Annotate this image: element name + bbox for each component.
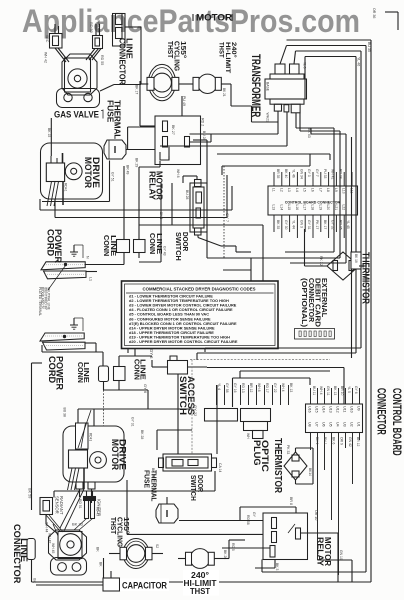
svg-text:WH 4: WH 4 [319,386,323,395]
svg-text:d20 - UPPER DRYER MOTOR CONTRO: d20 - UPPER DRYER MOTOR CONTROL CIRCUIT … [129,339,238,344]
thermal fuse TF2 [156,504,178,523]
wire [153,553,164,555]
svg-text:WH21: WH21 [266,113,270,123]
wire [160,145,287,147]
wire [262,225,264,281]
wire [39,199,41,210]
svg-text:PK 32: PK 32 [319,256,323,266]
hi-limit thermostat THS4 [190,549,210,569]
GY 7 dashed wire [223,166,225,258]
svg-text:RADIANTSENSOR: RADIANTSENSOR [55,496,64,515]
wire [250,258,252,281]
wire [385,11,398,13]
svg-text:BK 13: BK 13 [289,383,293,392]
wire [197,352,356,354]
svg-text:L3: L3 [287,188,291,192]
svg-text:OR 36: OR 36 [372,8,376,18]
power cord P1 [41,262,85,270]
wire [285,251,334,253]
svg-text:RD 55: RD 55 [100,55,104,65]
svg-text:BU 35: BU 35 [367,42,371,52]
wire labels above lower connectors [217,383,293,393]
svg-text:L13: L13 [272,205,276,211]
svg-text:U6: U6 [322,422,326,427]
svg-text:BR 35: BR 35 [276,169,280,179]
wire [216,385,218,454]
wire [85,264,125,266]
wire [223,257,225,259]
svg-text:MOTOR: MOTOR [196,13,233,23]
wire [205,347,361,349]
wire [318,559,353,561]
svg-text:YL 46: YL 46 [292,169,296,178]
gas valve GV2 base [51,558,87,576]
wire [179,520,263,522]
line conn J3 [134,240,146,253]
svg-text:L10: L10 [342,188,346,194]
wire [138,253,140,259]
svg-text:COMMERCIAL STACKED DRYER DIAGN: COMMERCIAL STACKED DRYER DIAGNOSTIC CODE… [142,287,255,292]
svg-text:L18: L18 [311,205,315,211]
svg-text:BK 27: BK 27 [171,125,175,135]
wire [287,39,372,41]
wire [42,351,103,353]
wire [31,560,33,583]
svg-text:GY 31: GY 31 [307,220,311,230]
right bus verticals [333,128,335,252]
svg-text:GAS VALVE: GAS VALVE [54,110,99,121]
wire [231,185,233,188]
svg-text:L1: L1 [272,188,276,192]
wire [123,166,125,240]
CN2 outgoing wires bottom [311,433,360,576]
thermal fuse TF1 [104,140,126,159]
svg-text:BK 29: BK 29 [135,158,139,167]
wire [45,515,47,525]
diagnostic codes text [129,294,238,345]
svg-text:BR 8: BR 8 [289,497,293,505]
motor relay K1 [155,116,201,165]
wire [86,271,97,273]
CN1 pin labels top row [272,188,354,194]
svg-text:THERMISTOR: THERMISTOR [272,438,284,493]
gas valve GV1 body [62,54,97,95]
svg-text:BK 28: BK 28 [140,430,144,439]
wire [103,390,105,426]
wire [179,83,193,85]
door switch S1 [190,183,207,232]
svg-text:BK 21: BK 21 [222,88,226,97]
wire diagonal [46,515,60,531]
wire [190,133,279,135]
svg-text:U16: U16 [308,406,312,413]
external debit card connector CN3 [295,329,335,340]
wire [147,390,149,409]
wire [54,199,56,218]
svg-text:L7: L7 [318,188,322,192]
wire [296,50,362,52]
optic plug CN4 [241,409,271,422]
CN1 wire labels above [276,169,342,179]
wire [295,507,297,513]
svg-text:GY 31: GY 31 [131,417,135,427]
gray dashed wire [191,360,193,455]
line conn J4 [99,366,109,382]
wire [128,126,155,128]
svg-text:SEC: SEC [45,35,49,43]
svg-text:BK 40: BK 40 [284,169,288,178]
wire [217,153,330,155]
control board connector CN1 [268,186,358,215]
svg-text:U15: U15 [315,406,319,413]
svg-text:GN 3: GN 3 [299,220,303,228]
wire [290,262,346,264]
svg-text:BK: BK [99,562,103,567]
CN2 wire labels above [312,386,358,396]
svg-text:L2: L2 [279,188,283,192]
gas valve GV1 coil terminal A [50,34,63,49]
wire [188,366,208,368]
svg-text:GY 6: GY 6 [354,386,358,394]
svg-text:RD 58: RD 58 [246,515,250,525]
svg-text:U10: U10 [350,406,354,413]
control board connector CN2 [306,404,363,433]
svg-text:PK 17: PK 17 [315,220,319,229]
svg-text:MOTORRELAY: MOTORRELAY [315,537,333,566]
svg-text:DRIVEMOTOR: DRIVEMOTOR [109,439,128,470]
svg-text:WH 4: WH 4 [281,383,285,392]
wire [287,45,367,47]
svg-text:LINECONN: LINECONN [76,362,91,383]
ground symbol [73,245,75,252]
gas valve GV2 body [49,530,87,560]
svg-text:BK 3: BK 3 [275,563,279,570]
CN2 pin labels top row [308,406,361,413]
svg-text:WH 8: WH 8 [257,383,261,392]
svg-text:BK 17: BK 17 [323,220,327,229]
drive motor M2 pins [76,482,83,489]
svg-text:S2: S2 [155,544,159,548]
svg-text:GN 34: GN 34 [299,169,303,179]
wire [126,480,128,534]
svg-text:U4: U4 [336,422,340,427]
svg-text:WH 44: WH 44 [45,522,49,532]
CN1 incoming wires top [274,172,352,186]
wire [214,471,216,491]
capacitor C1 [103,578,120,591]
svg-text:GY 7: GY 7 [315,169,319,177]
hi-limit thermostat THS4 label [183,570,219,596]
svg-text:WH: WH [246,433,250,439]
svg-text:GY: GY [252,512,256,518]
svg-text:L14: L14 [279,205,283,211]
motor relay K2 [263,513,308,560]
CN1 wire labels below [276,220,350,230]
wire diagonal [78,410,91,448]
wire [159,161,161,167]
svg-text:THST: THST [190,587,210,596]
wire [280,46,287,65]
wire [41,345,43,352]
svg-text:RD 17: RD 17 [265,383,269,393]
gas valve GV1 base [57,89,100,108]
drive motor M1 leads [47,182,52,207]
wire [152,366,168,368]
svg-text:YL 44: YL 44 [292,220,296,229]
svg-text:U1: U1 [357,422,361,427]
wire [140,125,155,127]
svg-text:BK 18: BK 18 [354,254,358,263]
svg-text:BU 28: BU 28 [202,131,206,141]
svg-text:U3: U3 [343,422,347,427]
wire [365,266,367,572]
wire [166,497,168,504]
wire [305,56,356,58]
gray dashed wire [190,359,330,361]
wire [301,532,339,534]
svg-text:WH 42: WH 42 [44,52,48,63]
svg-text:L22: L22 [342,205,346,211]
svg-text:BASE: BASE [266,82,270,92]
svg-text:GY 51: GY 51 [111,172,115,182]
svg-text:BK 1: BK 1 [315,437,319,444]
wire [54,490,215,492]
wire [109,161,111,202]
svg-text:CONNECTOR: CONNECTOR [12,524,22,584]
wire [93,409,95,426]
svg-text:BK 59: BK 59 [28,488,32,498]
svg-text:BR 12: BR 12 [356,437,360,447]
svg-text:BK 19: BK 19 [151,468,155,477]
svg-text:L8: L8 [326,188,330,192]
svg-text:YL 4: YL 4 [217,383,221,390]
door switch S3 [163,454,212,471]
wire [86,491,88,497]
ground symbol [73,318,75,325]
CN2 wire labels below [315,437,360,447]
access switch S2 [168,361,188,375]
svg-text:DRIVEMOTOR: DRIVEMOTOR [82,157,101,188]
note pointer wire [48,266,66,291]
svg-text:U2: U2 [350,422,354,427]
svg-text:RD 5: RD 5 [231,543,235,551]
wire [109,553,120,555]
svg-text:L1: L1 [89,277,93,281]
diagnostic codes legend box [122,281,279,349]
wire [197,235,199,238]
svg-text:YL 46: YL 46 [357,57,361,66]
wire [229,539,245,541]
svg-text:GN 42: GN 42 [348,437,352,447]
wire [171,183,173,225]
wire [126,149,155,151]
svg-text:GY 6: GY 6 [149,349,154,359]
wire [207,367,344,369]
wire [118,356,120,367]
wire [274,559,276,568]
svg-text:L6: L6 [311,188,315,192]
wire [222,558,229,560]
drive motor M1 [41,143,103,199]
svg-text:N: N [86,256,90,259]
wire [95,24,97,36]
CN2 incoming wires top [311,388,360,404]
svg-text:BK: BK [96,547,100,552]
svg-text:AppliancePartsPros.com: AppliancePartsPros.com [22,3,360,39]
cycling thermostat THS3 [123,539,149,569]
wire stubs to lower connectors [217,385,289,405]
svg-text:U5: U5 [329,422,333,427]
svg-text:LINECONN: LINECONN [148,233,164,254]
wire [222,547,270,549]
wire [102,352,104,367]
wire [262,571,366,573]
svg-text:GY 22: GY 22 [273,383,277,393]
svg-text:CAPACITOR: CAPACITOR [122,581,167,592]
thermistor RT2 [284,452,307,480]
svg-text:L15: L15 [287,205,291,211]
wire [182,176,184,183]
igniter E1 [85,500,89,519]
line conn J2 [117,240,130,253]
svg-text:BU 11: BU 11 [312,386,316,395]
svg-text:GY 7: GY 7 [225,213,230,223]
drive motor M2 leads [68,468,73,490]
wire [85,342,96,344]
svg-text:TRANSFORMER: TRANSFORMER [249,54,261,118]
wire [141,83,148,85]
svg-text:BK 6: BK 6 [331,437,335,444]
wire [221,83,231,85]
svg-text:RD 13: RD 13 [241,383,245,393]
svg-text:RD41: RD41 [64,183,68,192]
wire [127,349,129,353]
wire [40,209,232,211]
svg-text:RD 45: RD 45 [96,507,100,516]
wire [103,558,105,578]
svg-text:BK 26: BK 26 [223,550,227,559]
wire [359,265,366,267]
wire [55,217,227,219]
svg-text:WH 45: WH 45 [51,543,55,553]
svg-text:PK 33: PK 33 [286,445,290,454]
wire [118,381,120,391]
svg-text:RD 50: RD 50 [89,22,93,33]
svg-text:YL 45: YL 45 [346,220,350,229]
wire [177,375,179,455]
svg-text:BK 6: BK 6 [159,212,163,219]
svg-text:L5: L5 [303,188,307,192]
wire [239,371,241,378]
svg-text:GY 22: GY 22 [193,405,198,417]
svg-text:U7: U7 [315,422,319,427]
svg-text:U9: U9 [357,406,361,411]
CN1 pin labels bottom row [272,205,346,211]
wire [221,166,223,175]
svg-text:WH 8: WH 8 [176,169,180,178]
svg-text:BK 35: BK 35 [276,220,280,229]
svg-text:YL 5: YL 5 [347,386,351,393]
svg-text:BK 13: BK 13 [333,386,337,395]
wire [36,584,103,586]
wire [168,147,170,160]
svg-text:WH 42: WH 42 [48,533,52,543]
thermistor RT1 [327,252,359,280]
line conn J5 [114,367,126,381]
wire [192,14,194,21]
wire [204,348,206,352]
svg-text:BR 10: BR 10 [340,386,344,396]
svg-text:GY 58: GY 58 [225,383,229,393]
wire [53,491,55,498]
line connector J6 [27,539,35,560]
wire [295,480,297,484]
svg-text:L4: L4 [295,188,299,192]
wire [139,224,263,226]
svg-text:BK 15: BK 15 [47,128,51,137]
svg-text:PU 33: PU 33 [323,169,327,179]
svg-text:L20: L20 [326,205,330,211]
svg-text:GN 10: GN 10 [339,550,343,560]
svg-text:BU 28: BU 28 [185,190,189,200]
wire [54,24,56,34]
svg-text:RD41: RD41 [89,433,93,441]
wire [190,141,211,143]
wire [206,140,208,258]
svg-text:L17: L17 [303,205,307,211]
svg-text:U14: U14 [322,406,326,413]
svg-text:BR 12: BR 12 [249,383,253,393]
wire [233,377,311,379]
wire [207,257,340,259]
svg-text:U8: U8 [308,422,312,427]
svg-text:GY 16: GY 16 [233,383,237,393]
wire [31,363,33,510]
svg-text:BK14: BK14 [308,468,312,476]
svg-text:L19: L19 [318,205,322,211]
hi-limit thermostat THS2 [198,74,217,93]
wire [78,408,192,410]
wire [50,118,52,156]
wire [295,113,297,128]
wire [309,154,311,166]
CN1 outgoing wires bottom [274,215,344,238]
wire [156,430,158,450]
wire [223,269,251,271]
wire [305,265,328,267]
svg-text:BK 17: BK 17 [135,85,139,94]
svg-text:OR 10: OR 10 [314,510,318,520]
svg-text:OR 9: OR 9 [340,437,344,445]
gas valve GV1 solenoid leads [55,48,66,62]
svg-text:GY 6: GY 6 [143,384,148,394]
svg-text:CA 14: CA 14 [218,463,222,472]
svg-text:BR 49: BR 49 [126,165,130,175]
svg-text:BN 1: BN 1 [323,437,327,445]
drive motor M2 [63,426,124,482]
wire [295,448,297,452]
svg-text:RD 2: RD 2 [201,118,205,126]
wire [181,96,183,116]
wire [77,409,79,423]
svg-text:GN 11: GN 11 [326,386,330,396]
svg-text:LINECONN: LINECONN [102,235,118,256]
transformer T1 [265,79,307,99]
svg-text:GY 3: GY 3 [307,169,311,177]
svg-text:L16: L16 [295,205,299,211]
svg-text:U11: U11 [343,406,347,412]
svg-text:LINECONN: LINECONN [132,359,147,380]
